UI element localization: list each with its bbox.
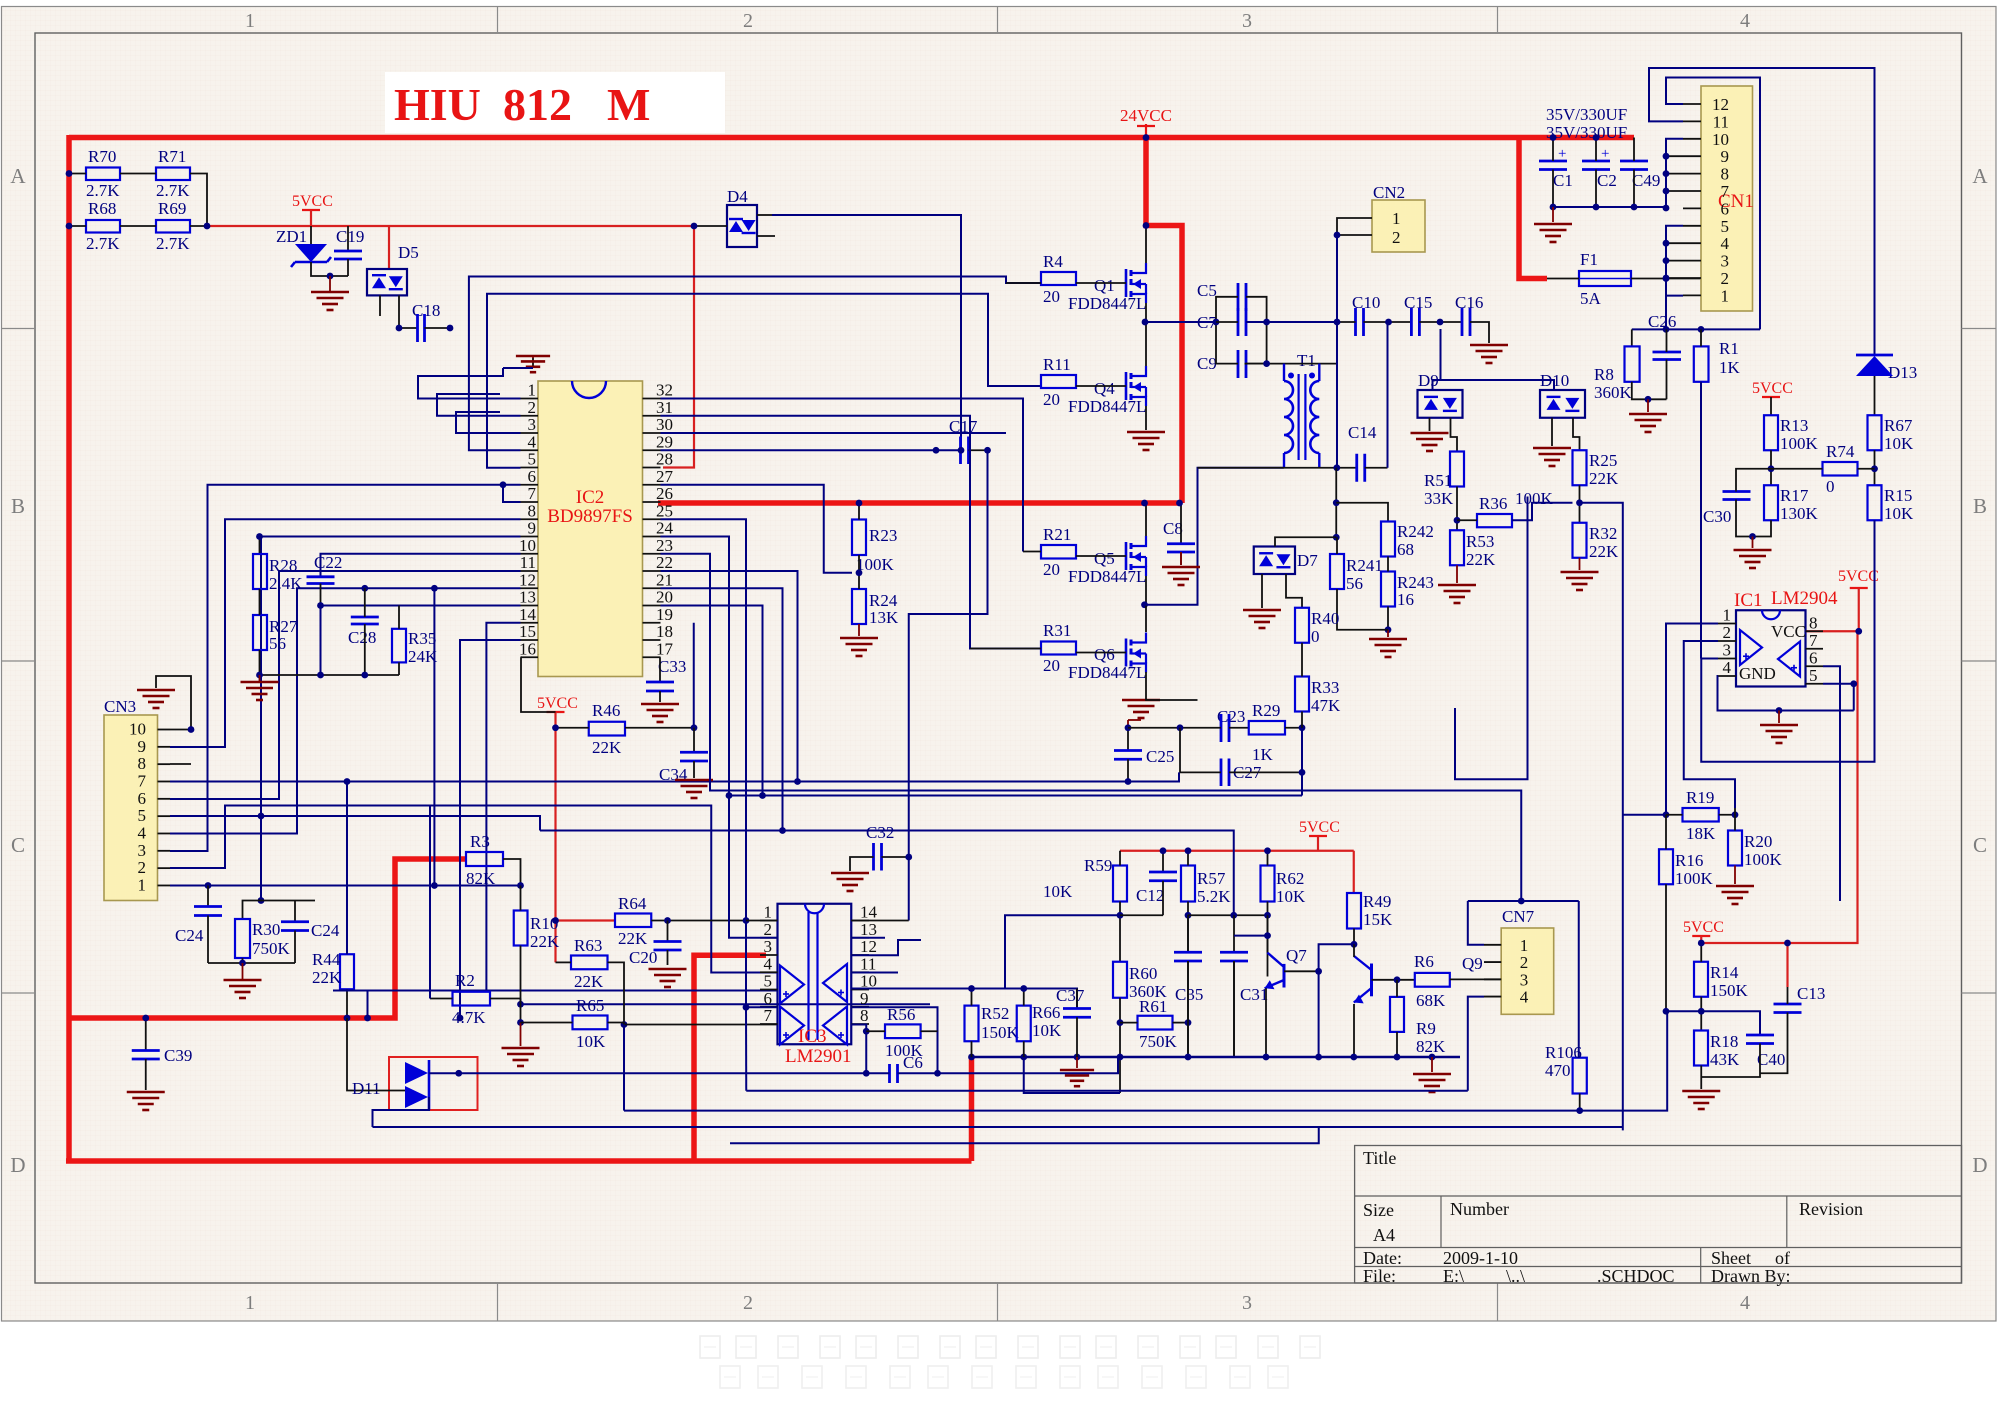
power 5VCC above R14	[1692, 935, 1710, 937]
wire C12 net down to R52 line	[972, 988, 1006, 990]
CN3 pin 6 stub	[158, 798, 171, 800]
junction C6 right IC3 pin9	[934, 1070, 941, 1077]
junction R46 left	[552, 724, 559, 731]
junction pin21 net	[779, 827, 786, 834]
svg-text:D9: D9	[1418, 371, 1439, 390]
junction CN2 pin2	[1334, 232, 1341, 239]
svg-text:4: 4	[138, 823, 147, 842]
wire R19 net from R25 chain	[1623, 814, 1666, 816]
wire R10 top	[520, 886, 522, 911]
wire C17 right net	[969, 449, 988, 451]
CN1 pin 3 stub	[1683, 260, 1701, 262]
svg-text:R17: R17	[1780, 486, 1809, 505]
wire IC2 pin29 to C17	[661, 449, 961, 451]
svg-text:R242: R242	[1397, 522, 1434, 541]
svg-text:150K: 150K	[981, 1023, 1020, 1042]
svg-text:27: 27	[656, 467, 674, 486]
wire R18 bottom	[1700, 1066, 1702, 1090]
junction R23 top	[856, 500, 863, 507]
wire Q6 drain	[1145, 605, 1147, 632]
wire D11 top output	[429, 1072, 459, 1074]
junction CN1 pin6	[1663, 205, 1670, 212]
watermark row 2	[720, 1366, 1288, 1388]
svg-text:25: 25	[656, 501, 673, 520]
svg-text:A4: A4	[1373, 1225, 1395, 1245]
svg-text:C20: C20	[629, 948, 657, 967]
power 5VCC right of IC1	[1850, 587, 1868, 589]
svg-text:12: 12	[860, 937, 877, 956]
IC1 pin 4 stub	[1718, 675, 1736, 677]
resistor R69	[156, 220, 190, 233]
svg-text:4: 4	[1740, 1292, 1750, 1314]
svg-text:2: 2	[1392, 228, 1401, 247]
svg-text:\..\: \..\	[1506, 1266, 1525, 1286]
junction C23/C27 riser	[1177, 724, 1184, 731]
wire IC2 pin25 to IC3 pin1/pin6	[661, 519, 778, 1007]
junction D4 red	[691, 223, 698, 230]
wire R4 to Q1 gate	[1076, 282, 1126, 284]
wire CN7 pin4 drop	[1468, 997, 1484, 1091]
junction R243 bottom	[1385, 626, 1392, 633]
junction R241 top	[1333, 499, 1340, 506]
svg-text:B: B	[11, 494, 25, 518]
wire R25 bottom	[1579, 485, 1581, 523]
CN1 pin 12 stub	[1683, 103, 1701, 105]
wire red R64 left lead	[556, 919, 617, 921]
ground below R27 rail	[259, 675, 261, 682]
wire R57 bottom	[1187, 902, 1189, 953]
wire C14 right lead	[1365, 467, 1388, 469]
wire bottom mesh line 1090	[746, 1090, 1468, 1092]
wire R20 bottom to ground	[1734, 866, 1736, 885]
wire R30/C24 top rail	[243, 901, 316, 920]
svg-text:F1: F1	[1580, 250, 1598, 269]
svg-text:10: 10	[1712, 130, 1729, 149]
svg-text:R61: R61	[1139, 997, 1167, 1016]
svg-text:R28: R28	[269, 556, 297, 575]
resistor R68	[86, 220, 120, 233]
IC1 pin 1 stub	[1718, 623, 1736, 625]
svg-text:13: 13	[519, 588, 536, 607]
svg-text:4: 4	[1723, 658, 1732, 677]
wire C27 node line	[729, 795, 1302, 797]
ground below R18	[1682, 1091, 1720, 1109]
IC1 body LM2904	[1736, 610, 1806, 686]
CN7 pin 3 stub	[1484, 978, 1501, 980]
CN3 pin 10 stub	[158, 729, 171, 731]
IC3 pin 12 stub	[851, 954, 869, 956]
wire R46 left	[556, 727, 589, 729]
resistor R8	[1625, 346, 1640, 381]
wire R17 bottom	[1753, 520, 1772, 536]
resistor R63	[571, 956, 608, 970]
junction D7 tap	[1333, 534, 1340, 541]
svg-text:5: 5	[764, 972, 773, 991]
svg-text:R16: R16	[1675, 851, 1703, 870]
resistor R36	[1477, 514, 1512, 527]
wire C30 link	[1736, 469, 1771, 491]
svg-text:+: +	[1558, 146, 1566, 162]
svg-text:5: 5	[528, 450, 537, 469]
svg-text:1: 1	[528, 381, 537, 400]
wire CN3 pin9 to IC2 pin8	[170, 519, 521, 747]
resistor R24	[852, 589, 866, 624]
junction C block left	[1213, 319, 1220, 326]
wire IC2 pin6/7 tie	[503, 485, 521, 502]
ground below C1 rail	[1552, 207, 1554, 222]
svg-text:Number: Number	[1450, 1199, 1509, 1219]
wire R66 bottom	[1023, 1041, 1025, 1057]
junction CN3 pin1 / C24	[205, 882, 212, 889]
wire R70-R71 row	[69, 173, 86, 175]
junction C1 bottom	[1550, 204, 1557, 211]
svg-text:R36: R36	[1479, 494, 1507, 513]
mosfet Q6	[1126, 633, 1146, 673]
junction bus R60	[1117, 1054, 1124, 1061]
wire R62 top	[1267, 851, 1269, 866]
svg-text:C30: C30	[1703, 507, 1731, 526]
resistor R52	[965, 1006, 979, 1042]
svg-text:11: 11	[520, 553, 536, 572]
ground below C16	[1470, 345, 1508, 363]
junction R57 top	[1185, 847, 1192, 854]
svg-text:360K: 360K	[1594, 383, 1633, 402]
CN1 pin 4 stub	[1683, 242, 1701, 244]
wire red R10/R63 rail	[554, 712, 556, 962]
IC3 pin 5 stub	[760, 989, 778, 991]
wire R62 bottom to Q7 base	[1267, 902, 1269, 977]
resistor R25	[1573, 450, 1587, 485]
svg-text:R3: R3	[470, 832, 490, 851]
svg-text:100K: 100K	[1515, 489, 1554, 508]
svg-text:1: 1	[245, 10, 255, 32]
IC2 pin 8 stub	[521, 518, 539, 520]
svg-text:IC1: IC1	[1734, 590, 1763, 611]
svg-text:15K: 15K	[1363, 910, 1393, 929]
resistor R243	[1381, 572, 1395, 607]
wire R63 leads	[556, 961, 572, 963]
svg-text:C32: C32	[866, 823, 894, 842]
wire C23 line	[1128, 727, 1221, 729]
svg-text:.SCHDOC: .SCHDOC	[1597, 1266, 1675, 1286]
junction C49 bottom	[1631, 204, 1638, 211]
zone tick right A|B	[1962, 328, 1997, 330]
junction CN1 pin9	[1663, 153, 1670, 160]
wire Q9 collector riser	[1353, 944, 1355, 957]
wire R57/C35/R62 link	[1188, 914, 1268, 916]
junction R51/R36/R53	[1454, 517, 1461, 524]
svg-text:100K: 100K	[1780, 434, 1819, 453]
svg-text:2.7K: 2.7K	[156, 234, 190, 253]
junction pin24 net	[726, 792, 733, 799]
svg-text:20: 20	[1043, 390, 1060, 409]
wire R242-R243	[1387, 557, 1389, 572]
svg-text:File:: File:	[1363, 1266, 1396, 1286]
svg-text:0: 0	[1826, 477, 1835, 496]
svg-text:21: 21	[656, 570, 673, 589]
junction pin22 net	[794, 778, 801, 785]
wire R59 top	[1119, 851, 1121, 866]
ground at CN3 pin10	[137, 690, 175, 708]
junction C13 5VCC	[1784, 940, 1791, 947]
svg-text:20: 20	[1043, 287, 1060, 306]
junction R59 bottom C12	[1117, 912, 1124, 919]
wire C12 bottom link	[1120, 914, 1163, 916]
svg-text:15: 15	[519, 622, 536, 641]
svg-text:6: 6	[764, 989, 773, 1008]
wire IC2 pin30 long line	[661, 432, 1007, 434]
svg-text:C33: C33	[658, 657, 686, 676]
junction R19 right	[1732, 811, 1739, 818]
svg-text:5VCC: 5VCC	[292, 193, 333, 210]
CN3 pin 2 stub	[158, 867, 171, 869]
wire Q9 emitter to bus	[1353, 1004, 1355, 1057]
svg-text:R49: R49	[1363, 892, 1391, 911]
wire R23 top to pin26 rail	[858, 503, 860, 520]
junction D4 net at C17	[958, 447, 965, 454]
svg-text:R67: R67	[1884, 416, 1913, 435]
ground below C34	[675, 780, 713, 798]
svg-text:C9: C9	[1197, 354, 1217, 373]
svg-text:R30: R30	[252, 920, 280, 939]
svg-text:68: 68	[1397, 540, 1414, 559]
wire CN2 pin1	[1337, 218, 1372, 235]
resistor R70	[86, 168, 120, 181]
junction R8 ground node	[1645, 396, 1652, 403]
IC2 pin 2 stub	[521, 415, 539, 417]
svg-text:2: 2	[1721, 269, 1730, 288]
IC2 pin 27 stub	[643, 484, 661, 486]
junction CN1 pin8	[1663, 170, 1670, 177]
wire C32 left to ground	[850, 857, 874, 871]
IC1 pin 3 stub	[1718, 658, 1736, 660]
junction C22 bottom	[317, 602, 324, 609]
wire IC1 pin5 drop	[1823, 684, 1854, 711]
wire IC2 pin14 drop to pin5 net	[486, 623, 520, 991]
zone tick top 3|4	[1497, 7, 1499, 34]
junction R52 top	[968, 985, 975, 992]
svg-text:FDD8447L: FDD8447L	[1068, 397, 1146, 416]
svg-text:1: 1	[1721, 286, 1730, 305]
resistor R6	[1415, 973, 1450, 987]
junction IC3 pin6 riser	[743, 1004, 750, 1011]
junction R56 left	[863, 1028, 870, 1035]
junction pin12 drop bottom	[431, 882, 438, 889]
IC1 pin 5 stub	[1806, 683, 1824, 685]
IC2 pin 24 stub	[643, 536, 661, 538]
wire C16 right to ground	[1470, 322, 1489, 343]
CN1 pin 9 stub	[1683, 155, 1701, 157]
junction R106 bottom	[1576, 1107, 1583, 1114]
wire R36 net riser	[1455, 497, 1528, 780]
zone tick bottom 3|4	[1497, 1283, 1499, 1321]
svg-text:FDD8447L: FDD8447L	[1068, 663, 1146, 682]
resistor R33	[1295, 677, 1309, 712]
resistor R74	[1823, 462, 1858, 476]
wire R49 node to Q7 base net	[1319, 944, 1354, 1057]
wire R30 bottom rail	[243, 958, 296, 963]
junction bus R52	[968, 1054, 975, 1061]
junction C27 right	[1299, 769, 1306, 776]
svg-text:4: 4	[1721, 234, 1730, 253]
wire CN7 pin1 riser	[1468, 901, 1484, 945]
wire D13 to R67	[1874, 376, 1876, 415]
svg-text:5: 5	[138, 806, 147, 825]
wire C28 bottom to rail	[364, 624, 366, 675]
IC2 pin 29 stub	[643, 449, 661, 451]
wire D9 right pin to R51	[1451, 418, 1458, 452]
svg-text:4: 4	[1740, 10, 1750, 32]
wire bottom mesh line 1143	[730, 1127, 1319, 1143]
svg-text:19: 19	[656, 605, 673, 624]
wire R9 top	[1396, 980, 1398, 997]
wire D11 bottom loop	[373, 1097, 430, 1127]
svg-text:IC3: IC3	[798, 1026, 827, 1047]
svg-text:R18: R18	[1710, 1032, 1738, 1051]
wire R60 bottom / R61 left	[1119, 998, 1121, 1093]
svg-text:4.7K: 4.7K	[452, 1008, 486, 1027]
IC2 pin 28 stub	[643, 467, 661, 469]
resistor R64	[615, 914, 651, 928]
svg-text:Title: Title	[1363, 1148, 1396, 1168]
svg-text:56: 56	[269, 634, 286, 653]
svg-text:7: 7	[1809, 631, 1818, 650]
wire R31 left lead	[970, 648, 1041, 650]
title block row line under Date	[1355, 1266, 1962, 1268]
wire IC2 pin27 to R23 bottom	[661, 485, 853, 573]
svg-text:2: 2	[764, 920, 773, 939]
IC2 pin 1 stub	[521, 398, 539, 400]
title block divider Number|Revision	[1786, 1196, 1788, 1248]
wire thick red IC3 pin3 drop	[694, 955, 766, 1161]
svg-text:18: 18	[656, 622, 673, 641]
svg-text:FDD8447L: FDD8447L	[1068, 294, 1146, 313]
zone tick left B|C	[2, 660, 36, 662]
junction R13/C30/R74	[1768, 465, 1775, 472]
junction D11 output	[455, 1070, 462, 1077]
svg-text:3: 3	[1721, 252, 1730, 271]
svg-text:D: D	[10, 1153, 25, 1177]
svg-text:3: 3	[1242, 10, 1252, 32]
junction bus Q9 emitter	[1350, 1054, 1357, 1061]
resistor R32	[1573, 523, 1587, 558]
IC3 pin 14 stub	[851, 920, 869, 922]
svg-text:C31: C31	[1240, 985, 1268, 1004]
resistor R14	[1694, 962, 1708, 997]
resistor R3	[466, 852, 503, 866]
svg-text:8: 8	[1721, 165, 1730, 184]
resistor R35	[392, 629, 406, 663]
wire T1 primary top lead	[1283, 364, 1285, 381]
wire R46 right to C34	[625, 727, 694, 729]
IC3 pin 4 stub	[760, 971, 778, 973]
ground below C8	[1180, 552, 1182, 565]
wire IC2 pin19 drop to C34	[693, 623, 695, 728]
svg-text:C26: C26	[1648, 312, 1676, 331]
power 5VCC above R10 rail	[547, 711, 565, 713]
wire bottom mesh line 1110	[624, 1011, 1667, 1110]
svg-text:R44: R44	[312, 950, 341, 969]
svg-text:1: 1	[1723, 606, 1732, 625]
svg-text:22: 22	[656, 553, 673, 572]
ground below D10	[1533, 448, 1571, 466]
junction C17 left	[933, 447, 940, 454]
svg-text:B: B	[1973, 494, 1987, 518]
wire IC2 pin24 / IC3 pin2 net	[661, 537, 778, 938]
svg-text:5VCC: 5VCC	[1752, 380, 1793, 397]
wire C31 riser to Q7 collector	[1234, 935, 1268, 937]
junction pin12 C28 riser	[361, 585, 368, 592]
wire IC2 pin16 to 5VCC	[521, 657, 556, 712]
zone tick right C|D	[1962, 992, 1997, 994]
junction R49/Q9 collector	[1351, 941, 1358, 948]
svg-text:5VCC: 5VCC	[1838, 568, 1879, 585]
CN1 pin 1 stub	[1683, 294, 1701, 296]
wire R6 right to CN7 pin3	[1450, 978, 1501, 980]
junction C block right	[1263, 319, 1270, 326]
wire C27 node riser	[1301, 728, 1303, 796]
svg-text:10: 10	[129, 720, 146, 739]
zone tick bottom 2|3	[997, 1283, 999, 1321]
junction pin5 net red line	[364, 1015, 371, 1022]
IC2 pin 19 stub	[643, 622, 661, 624]
svg-text:R21: R21	[1043, 525, 1071, 544]
svg-text:C35: C35	[1175, 985, 1203, 1004]
ground below D7	[1243, 610, 1281, 628]
wire IC3 pin8 / R56 riser	[851, 1025, 866, 1074]
junction R64 right C20	[664, 917, 671, 924]
resistor R15	[1868, 485, 1882, 520]
op-amp IC3-B	[780, 1007, 804, 1045]
wire C32 right	[882, 856, 909, 858]
svg-text:5VCC: 5VCC	[537, 695, 578, 712]
ground below C30	[1752, 537, 1754, 549]
op-amp IC3-C	[823, 964, 847, 1002]
svg-text:A: A	[1972, 164, 1988, 188]
svg-text:11: 11	[860, 954, 876, 973]
T1 polarity dots	[1288, 373, 1294, 379]
wire C27 left	[1180, 728, 1221, 773]
wire T1 top tie	[1245, 363, 1338, 365]
junction R62 top	[1264, 847, 1271, 854]
svg-text:9: 9	[860, 989, 869, 1008]
ground below C39	[127, 1092, 165, 1110]
svg-text:C24: C24	[311, 921, 340, 940]
wire R67 bottom	[1874, 450, 1876, 485]
CN3 pin 1 stub	[158, 884, 171, 886]
wire IC1 pin2 loop	[1684, 641, 1735, 808]
wire CN3 pin8 stub	[170, 763, 191, 765]
junction Q7 collector tie	[1264, 932, 1271, 939]
ground below R10	[520, 1023, 522, 1047]
wire CN2 drop through T1 node to C14	[1336, 235, 1338, 468]
svg-text:M: M	[607, 79, 650, 130]
svg-text:30: 30	[656, 415, 673, 434]
svg-text:C19: C19	[336, 227, 364, 246]
wire R29 right	[1285, 727, 1302, 729]
junction R16 bottom / R14 line	[1663, 1008, 1670, 1015]
junction R67/R74/R15	[1871, 465, 1878, 472]
svg-text:3: 3	[764, 937, 773, 956]
svg-text:Revision: Revision	[1799, 1199, 1863, 1219]
IC2 pin 10 stub	[521, 553, 539, 555]
title block row line under Size	[1355, 1247, 1962, 1249]
ground below D9	[1411, 433, 1449, 451]
wire C12 net to R66 area	[1005, 915, 1120, 988]
wire C10 line	[1337, 321, 1356, 323]
wire IC2 pin12 drop to CN3 pin1 line	[433, 588, 435, 885]
svg-text:8: 8	[138, 754, 147, 773]
